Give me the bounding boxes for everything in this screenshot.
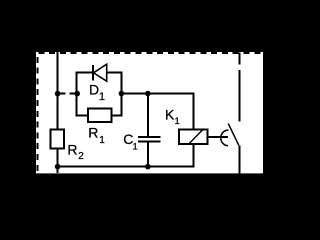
svg-text:D: D <box>89 82 99 98</box>
svg-text:R: R <box>88 125 98 141</box>
svg-text:1: 1 <box>175 116 180 126</box>
svg-text:1: 1 <box>99 91 105 103</box>
svg-text:1: 1 <box>133 141 138 151</box>
svg-text:2: 2 <box>78 151 84 162</box>
svg-text:1: 1 <box>99 135 105 146</box>
svg-text:K: K <box>165 107 175 123</box>
svg-text:R: R <box>67 142 77 158</box>
